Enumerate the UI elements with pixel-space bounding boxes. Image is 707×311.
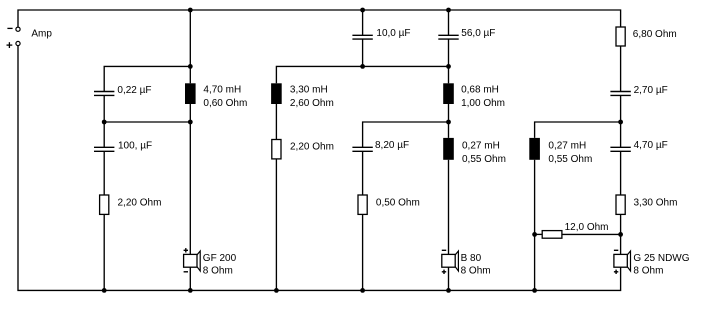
svg-text:8 Ohm: 8 Ohm <box>203 265 233 276</box>
svg-text:12,0 Ohm: 12,0 Ohm <box>565 222 609 233</box>
svg-text:0,55 Ohm: 0,55 Ohm <box>548 154 592 165</box>
svg-text:3,30 mH: 3,30 mH <box>290 85 328 96</box>
svg-text:4,70 µF: 4,70 µF <box>634 140 668 151</box>
svg-text:0,27 mH: 0,27 mH <box>462 140 500 151</box>
svg-text:2,70 µF: 2,70 µF <box>634 85 668 96</box>
svg-text:8 Ohm: 8 Ohm <box>633 266 663 277</box>
svg-text:Amp: Amp <box>31 29 52 40</box>
svg-text:GF 200: GF 200 <box>203 253 237 264</box>
svg-text:56,0 µF: 56,0 µF <box>461 28 495 39</box>
svg-text:10,0 µF: 10,0 µF <box>376 28 410 39</box>
svg-text:0,68 mH: 0,68 mH <box>461 85 499 96</box>
svg-text:8 Ohm: 8 Ohm <box>461 265 491 276</box>
svg-text:0,55 Ohm: 0,55 Ohm <box>462 154 506 165</box>
svg-text:2,20 Ohm: 2,20 Ohm <box>118 197 162 208</box>
svg-text:0,60 Ohm: 0,60 Ohm <box>203 98 247 109</box>
svg-text:B 80: B 80 <box>461 253 482 264</box>
svg-text:100, µF: 100, µF <box>118 140 152 151</box>
svg-text:0,50 Ohm: 0,50 Ohm <box>376 198 420 209</box>
svg-text:G 25 NDWG: G 25 NDWG <box>633 253 689 264</box>
svg-text:1,00 Ohm: 1,00 Ohm <box>461 98 505 109</box>
svg-text:2,60 Ohm: 2,60 Ohm <box>290 98 334 109</box>
svg-text:2,20 Ohm: 2,20 Ohm <box>290 142 334 153</box>
svg-text:6,80 Ohm: 6,80 Ohm <box>633 29 677 40</box>
svg-text:8,20 µF: 8,20 µF <box>375 140 409 151</box>
svg-text:0,22 µF: 0,22 µF <box>117 85 151 96</box>
svg-text:4,70 mH: 4,70 mH <box>203 85 241 96</box>
svg-text:0,27 mH: 0,27 mH <box>548 140 586 151</box>
svg-text:3,30 Ohm: 3,30 Ohm <box>634 197 678 208</box>
